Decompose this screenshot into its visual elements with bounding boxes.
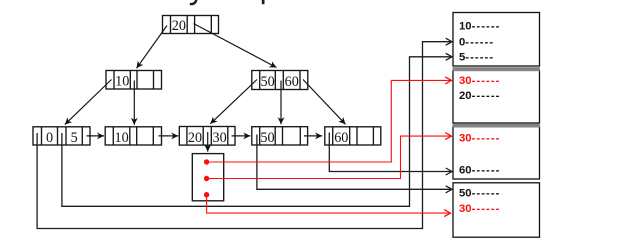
pointer node5060 to leaf 20 30	[210, 80, 257, 124]
svg-text:50: 50	[261, 74, 275, 90]
red pointer bucket3 to block4 30	[207, 195, 451, 213]
svg-text:50: 50	[260, 130, 274, 146]
svg-text:20: 20	[188, 130, 202, 146]
leaf chain 50 to 60	[304, 135, 322, 137]
root node	[163, 16, 219, 34]
leaf chain 20 30 to 50	[232, 135, 251, 137]
svg-text:10------: 10------	[459, 20, 500, 32]
title descender y	[190, 0, 196, 4]
pointer node5060 to leaf 60	[303, 80, 346, 125]
pointer root to node 50 60	[194, 24, 277, 68]
svg-text:50------: 50------	[459, 187, 500, 199]
red pointer bucket2 to block3 30	[207, 136, 452, 178]
svg-text:60: 60	[334, 130, 348, 146]
record pointer key 60	[329, 133, 452, 172]
svg-text:30------: 30------	[459, 133, 500, 145]
pointer node10 to leaf 10	[133, 81, 135, 125]
data block 3	[453, 127, 540, 179]
leaf chain 0 5 to 10	[87, 135, 105, 137]
svg-text:60------: 60------	[459, 164, 500, 176]
bucket	[192, 154, 223, 201]
svg-text:60: 60	[285, 74, 299, 90]
svg-text:10: 10	[115, 130, 129, 146]
svg-text:20------: 20------	[459, 90, 500, 102]
svg-text:30: 30	[213, 130, 227, 146]
pointer leaf2030 to bucket	[207, 132, 209, 152]
svg-text:20: 20	[172, 18, 186, 34]
record pointer key 50	[257, 135, 452, 190]
leaf node 50	[252, 127, 308, 145]
svg-text:5: 5	[71, 130, 78, 146]
svg-text:0: 0	[46, 130, 53, 146]
title descender p	[262, 0, 265, 4]
internal node 50 60	[252, 71, 308, 90]
leaf node 10	[105, 127, 161, 145]
svg-text:30------: 30------	[459, 75, 500, 87]
svg-text:0------: 0------	[459, 36, 494, 48]
record pointer key 0	[37, 42, 452, 229]
pointer node5060 to leaf 50	[280, 81, 282, 125]
bucket dot 1	[204, 159, 209, 164]
gray divider 1	[453, 67, 540, 71]
pointer root to node 10	[137, 26, 168, 69]
data block 4	[453, 183, 540, 237]
bucket dot 2	[204, 176, 209, 181]
svg-text:5------: 5------	[459, 51, 494, 63]
red pointer bucket1 to block2 30	[207, 80, 452, 162]
data block 1	[453, 13, 540, 67]
leaf node 60	[325, 127, 381, 145]
pointer node10 to leaf 0 5	[65, 80, 112, 125]
svg-text:10: 10	[115, 74, 129, 90]
record pointer key 5	[62, 57, 452, 207]
leaf node 20 30	[179, 127, 235, 146]
svg-text:30------: 30------	[459, 203, 500, 215]
gray divider 2	[453, 124, 540, 128]
internal node 10	[106, 71, 162, 90]
leaf node 0 5	[33, 127, 90, 145]
data block 2	[453, 70, 540, 123]
bucket dot 3	[204, 192, 209, 197]
leaf chain 10 to 20 30	[159, 135, 179, 137]
